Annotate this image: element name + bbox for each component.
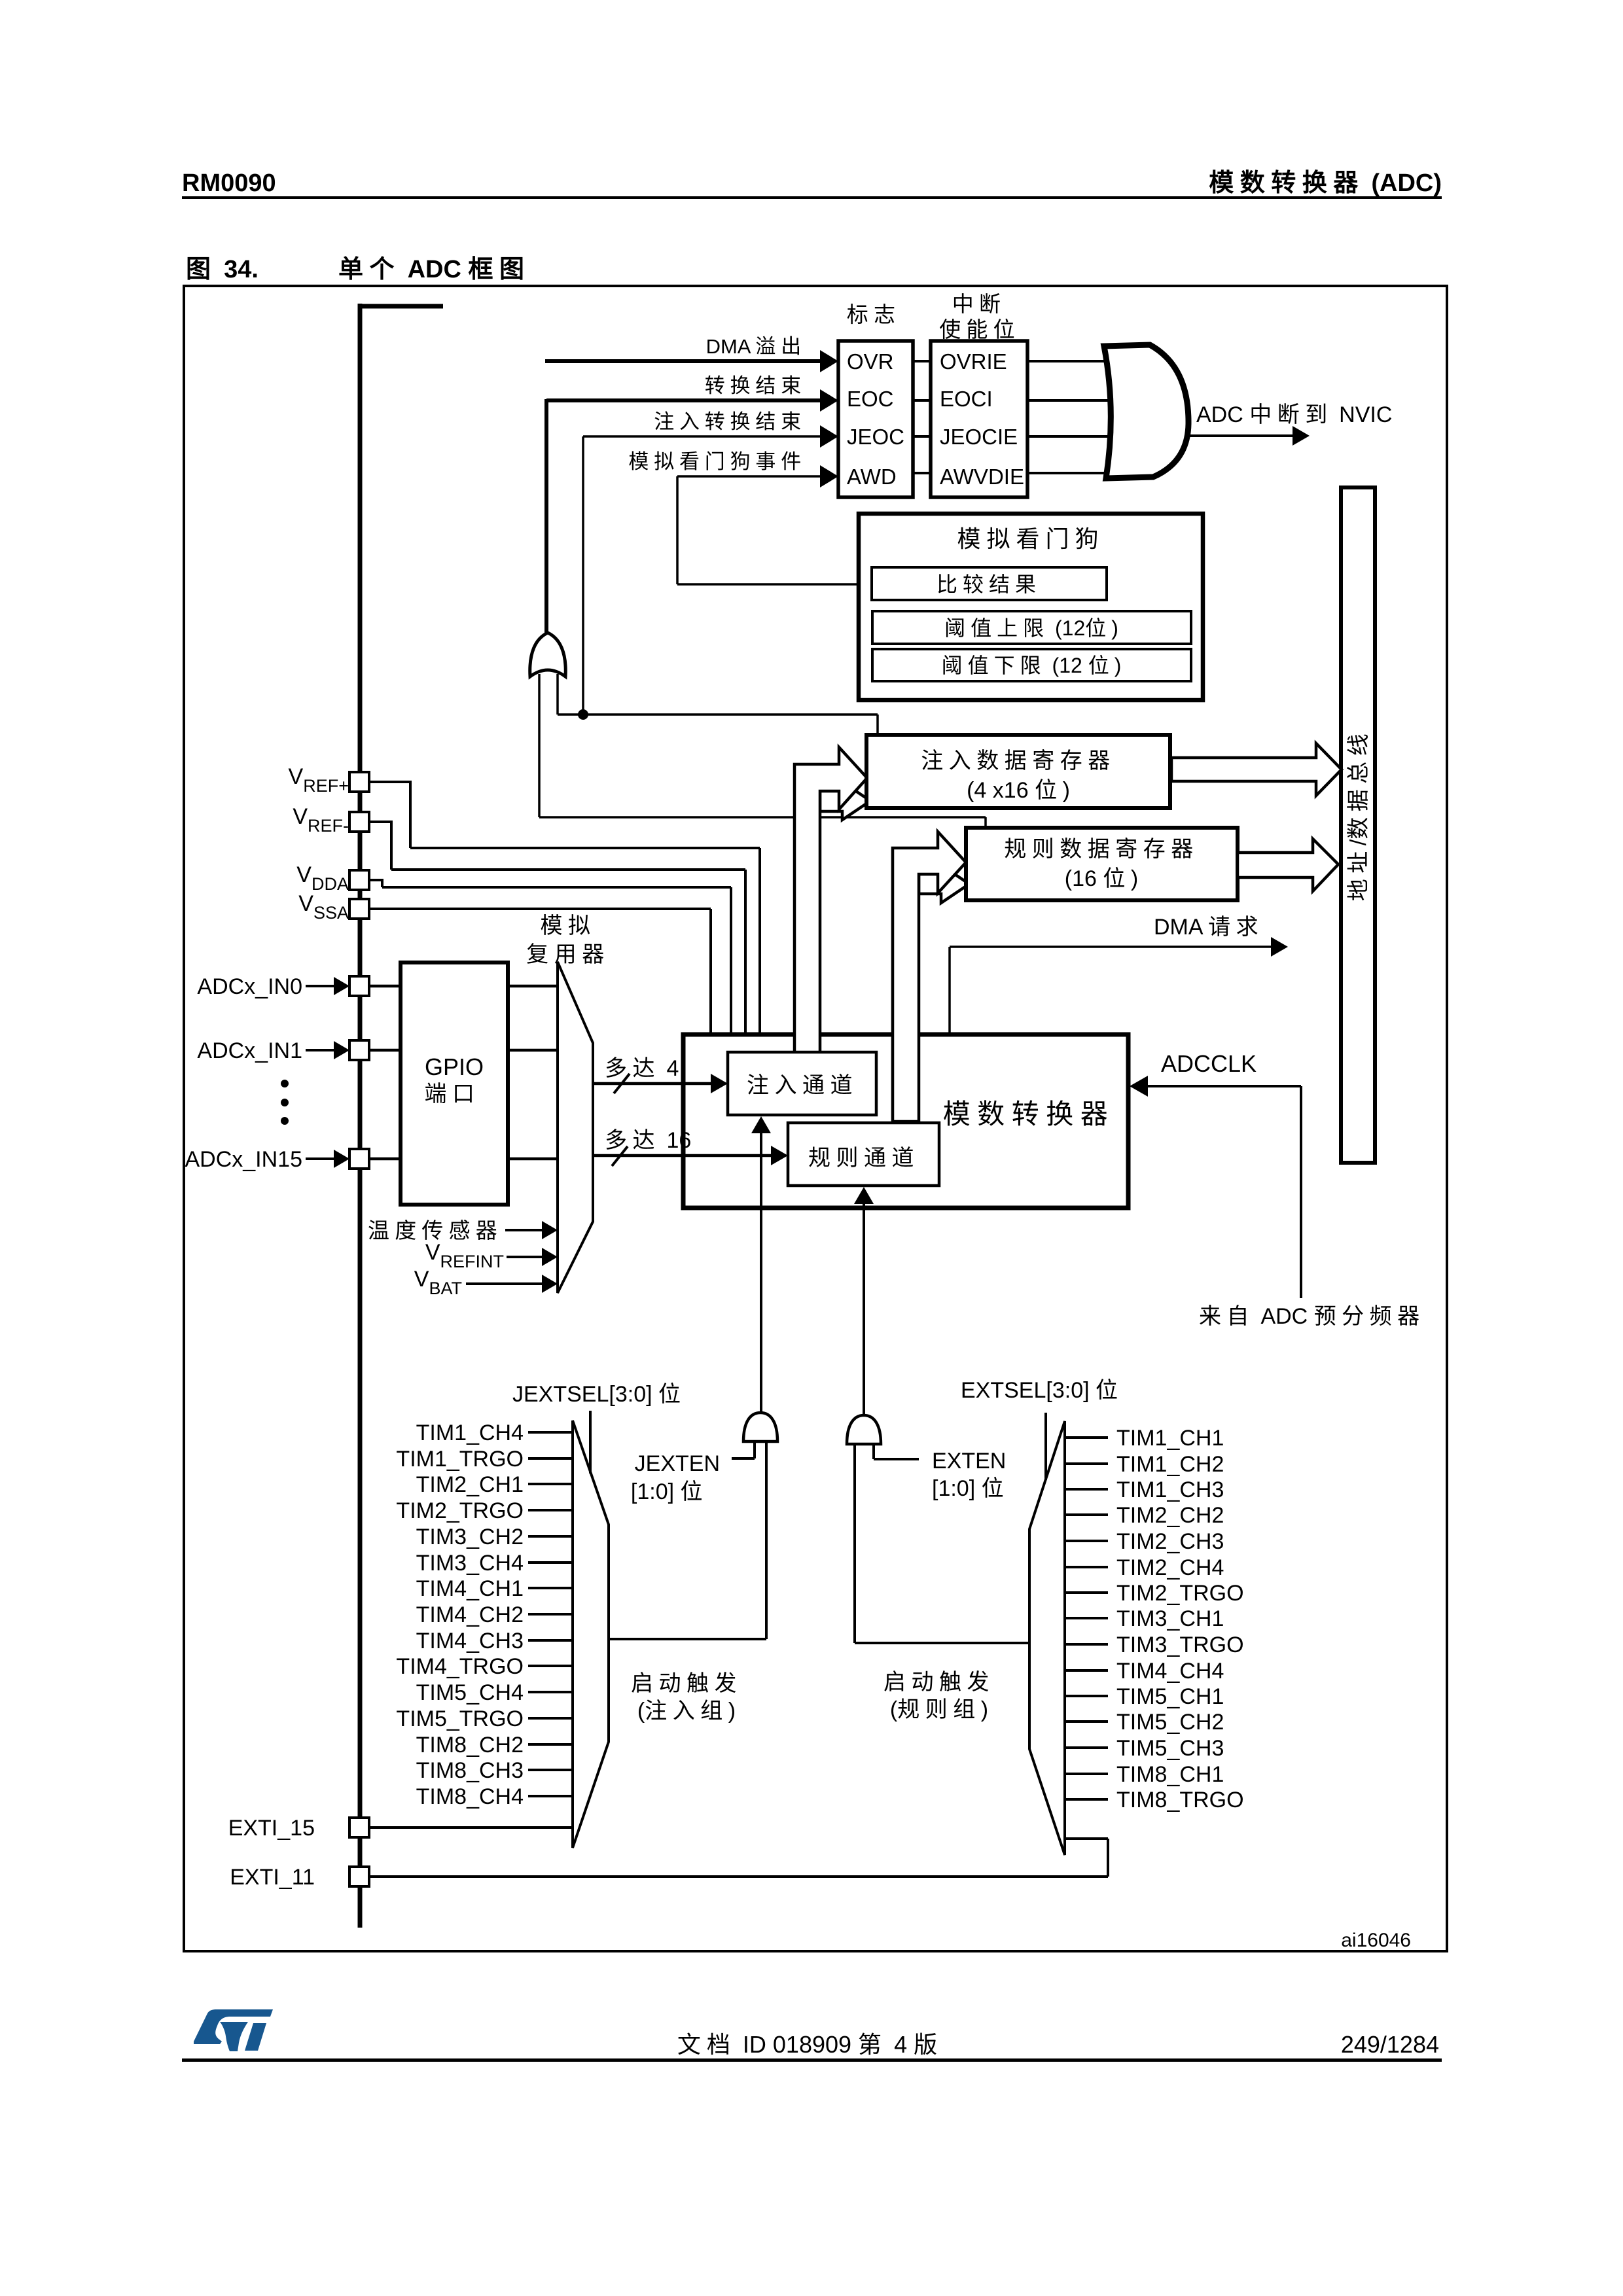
- wire ADC input y=1605: [369, 1049, 401, 1052]
- svg-text:ADCx_IN1: ADCx_IN1: [197, 1038, 302, 1063]
- arrowhead regular trigger: [854, 1187, 874, 1204]
- compare result box: [872, 567, 1107, 600]
- svg-text:TIM8_CH4: TIM8_CH4: [416, 1784, 524, 1809]
- wire ADCx_IN0 in: [306, 985, 334, 987]
- wire TIM4_CH2: [528, 1613, 573, 1616]
- EXTSEL mux trapezoid: [1029, 1421, 1065, 1855]
- svg-text:TIM1_CH2: TIM1_CH2: [1116, 1452, 1224, 1477]
- svg-text:TIM5_TRGO: TIM5_TRGO: [396, 1706, 524, 1731]
- wire TIM1_CH4: [528, 1431, 573, 1434]
- address data bus box: [1341, 487, 1375, 1163]
- svg-text:TIM5_CH3: TIM5_CH3: [1116, 1736, 1224, 1761]
- block arrow regular to bus: [1238, 839, 1338, 891]
- regular channels box: [788, 1123, 939, 1186]
- low threshold box: [872, 649, 1191, 681]
- svg-text:AWVDIE: AWVDIE: [940, 465, 1024, 489]
- wire TIM2_TRGO: [528, 1509, 573, 1511]
- wire ADCx_IN1 in: [306, 1049, 334, 1051]
- wire flag to enable y=552: [913, 360, 931, 362]
- svg-text:TIM5_CH4: TIM5_CH4: [416, 1680, 524, 1705]
- wire TIM2_CH3: [1065, 1540, 1108, 1542]
- wire JEXT mux out: [609, 1638, 766, 1640]
- wire TIM5_CH2: [1065, 1720, 1108, 1723]
- svg-text:TIM1_TRGO: TIM1_TRGO: [396, 1447, 524, 1472]
- wire ADC input y=1507: [369, 985, 401, 988]
- svg-text:TIM4_CH3: TIM4_CH3: [416, 1629, 524, 1653]
- svg-text:多达 16: 多达 16: [605, 1128, 691, 1153]
- wire TIM3_TRGO: [1065, 1643, 1108, 1646]
- injected channels box: [728, 1052, 876, 1115]
- svg-text:启动触发: 启动触发: [631, 1671, 742, 1696]
- svg-text:249/1284: 249/1284: [1341, 2031, 1439, 2058]
- wire VBAT: [466, 1282, 543, 1285]
- svg-text:VDDA: VDDA: [296, 862, 349, 894]
- svg-text:JEOCIE: JEOCIE: [940, 425, 1018, 449]
- wire regular trigger: [863, 1191, 865, 1414]
- wire TIM1_CH2: [1065, 1462, 1108, 1465]
- wire TIM3_CH1: [1065, 1617, 1108, 1619]
- svg-text:注入数据寄存器: 注入数据寄存器: [921, 749, 1116, 773]
- pin EXTI_15: [349, 1818, 369, 1837]
- wire enable to OR y=723: [1027, 472, 1119, 474]
- svg-text:OVR: OVR: [847, 349, 894, 374]
- svg-text:模数转换器: 模数转换器: [943, 1099, 1115, 1129]
- or-gate G4 EXT: [847, 1415, 881, 1444]
- wire TIM2_CH4: [1065, 1566, 1108, 1568]
- svg-text:中断: 中断: [952, 292, 1006, 316]
- svg-text:TIM2_CH3: TIM2_CH3: [1116, 1529, 1224, 1554]
- wire TIM2_CH2: [1065, 1513, 1108, 1516]
- wire JEXTSEL select: [589, 1411, 592, 1474]
- wire TIM4_CH4: [1065, 1669, 1108, 1672]
- svg-text:TIM8_CH2: TIM8_CH2: [416, 1733, 524, 1757]
- svg-text:转换结束: 转换结束: [705, 374, 806, 397]
- wire enable to OR y=667: [1027, 435, 1119, 438]
- svg-text:图 34.: 图 34.: [186, 256, 259, 283]
- ADC converter box 模数转换器: [683, 1034, 1128, 1208]
- wire EXTI_15 to mux: [369, 1826, 573, 1829]
- svg-text:JEOC: JEOC: [847, 425, 904, 449]
- wire ADCCLK: [1143, 1085, 1301, 1087]
- arrowhead AWD: [820, 465, 838, 487]
- block arrow injected data B: [820, 782, 870, 820]
- wire TIM8_CH3: [528, 1769, 573, 1771]
- svg-text:(注入组): (注入组): [637, 1699, 736, 1723]
- node JEOC junction: [578, 709, 588, 720]
- wire enable to OR y=552: [1027, 360, 1119, 362]
- svg-text:GPIO: GPIO: [425, 1053, 484, 1080]
- wire EXTEN: [874, 1458, 919, 1460]
- wire flag to enable y=612: [913, 399, 931, 402]
- GPIO ports box: [401, 963, 508, 1205]
- wire ADC input y=1771: [369, 1157, 401, 1161]
- svg-text:模拟看门狗: 模拟看门狗: [957, 525, 1104, 552]
- or-gate G2 (ADC interrupt): [1104, 345, 1188, 478]
- svg-text:(4 x16 位): (4 x16 位): [967, 778, 1070, 803]
- svg-text:ai16046: ai16046: [1341, 1930, 1411, 1951]
- svg-text:EXTSEL[3:0] 位: EXTSEL[3:0] 位: [961, 1378, 1124, 1403]
- svg-text:TIM3_CH2: TIM3_CH2: [416, 1525, 524, 1549]
- svg-text:TIM3_CH4: TIM3_CH4: [416, 1551, 524, 1576]
- wire ADCx_IN15 in: [306, 1157, 334, 1160]
- arrowhead JEOC: [820, 425, 838, 448]
- block arrow injected data A: [794, 747, 867, 1057]
- svg-text:TIM4_TRGO: TIM4_TRGO: [396, 1654, 524, 1679]
- wire TIM3_CH2: [528, 1535, 573, 1538]
- wire TIM5_CH3: [1065, 1746, 1108, 1749]
- svg-text:TIM3_TRGO: TIM3_TRGO: [1116, 1633, 1244, 1657]
- svg-text:EOC: EOC: [847, 387, 894, 411]
- analog mux trapezoid: [558, 962, 593, 1293]
- svg-text:ADC 中断到 NVIC: ADC 中断到 NVIC: [1196, 402, 1392, 427]
- arrowhead to NVIC: [1293, 426, 1310, 446]
- analog watchdog box: [859, 514, 1203, 700]
- arrowhead EOC: [820, 389, 838, 412]
- figure frame: [184, 286, 1447, 1951]
- svg-text:TIM8_TRGO: TIM8_TRGO: [1116, 1788, 1244, 1812]
- wire injected trigger: [760, 1120, 762, 1412]
- wire VREF+ net: [369, 781, 410, 783]
- svg-text:TIM4_CH2: TIM4_CH2: [416, 1602, 524, 1627]
- arrowhead ADCx_IN0: [334, 977, 349, 995]
- svg-text:注入转换结束: 注入转换结束: [654, 410, 806, 433]
- svg-text:VREFINT: VREFINT: [425, 1240, 504, 1271]
- svg-text:启动触发: 启动触发: [883, 1670, 995, 1695]
- svg-text:TIM5_CH2: TIM5_CH2: [1116, 1710, 1224, 1735]
- slash up-to-16: [612, 1146, 628, 1166]
- wire TIM2_TRGO: [1065, 1591, 1108, 1594]
- wire EXTI_11 to mux: [369, 1875, 1108, 1878]
- pin ADCx_IN1: [349, 1040, 369, 1060]
- svg-text:RM0090: RM0090: [182, 169, 276, 197]
- slash up-to-4: [614, 1074, 630, 1093]
- svg-text:AWD: AWD: [847, 465, 897, 489]
- wire TIM8_CH4: [528, 1795, 573, 1797]
- svg-text:比较结果: 比较结果: [936, 573, 1041, 596]
- svg-text:阈值上限 (12位): 阈值上限 (12位): [944, 616, 1118, 640]
- wire TIM4_CH3: [528, 1639, 573, 1642]
- wire VSSA net: [369, 908, 711, 910]
- svg-text:TIM8_CH3: TIM8_CH3: [416, 1758, 524, 1783]
- or-gate G1 (EOC combine): [530, 633, 566, 677]
- svg-text:TIM1_CH3: TIM1_CH3: [1116, 1477, 1224, 1502]
- wire flag to enable y=667: [913, 435, 931, 438]
- pin VREF+: [349, 772, 369, 792]
- svg-text:TIM5_CH1: TIM5_CH1: [1116, 1684, 1224, 1709]
- block arrow regular data B: [919, 865, 969, 903]
- ellipsis dots: [281, 1080, 289, 1087]
- svg-text:ADCx_IN0: ADCx_IN0: [197, 974, 302, 999]
- svg-text:多达 4: 多达 4: [605, 1056, 679, 1081]
- svg-text:地址/数据总线: 地址/数据总线: [1346, 728, 1371, 901]
- wire TIM8_CH1: [1065, 1773, 1108, 1775]
- svg-text:VBAT: VBAT: [414, 1267, 462, 1298]
- svg-text:ADCx_IN15: ADCx_IN15: [185, 1147, 302, 1172]
- arrowhead OVR: [820, 350, 838, 372]
- pin ADCx_IN0: [349, 976, 369, 996]
- arrowhead up-to-4: [711, 1074, 728, 1093]
- wire TIM8_TRGO: [1065, 1798, 1108, 1801]
- regular data register box: [966, 828, 1238, 900]
- svg-text:(规则组): (规则组): [890, 1697, 988, 1722]
- footer rule: [182, 2058, 1442, 2062]
- wire ADC interrupt out: [1186, 434, 1293, 437]
- pin EXTI_11: [349, 1867, 369, 1886]
- arrowhead ADCx_IN15: [334, 1150, 349, 1168]
- svg-text:OVRIE: OVRIE: [940, 349, 1007, 374]
- svg-text:EXTEN: EXTEN: [932, 1449, 1006, 1474]
- svg-text:[1:0] 位: [1:0] 位: [932, 1476, 1009, 1501]
- svg-text:模数转换器 (ADC): 模数转换器 (ADC): [1209, 169, 1442, 197]
- label 地址/数据总线: [1346, 728, 1371, 901]
- arrowhead VREFINT: [542, 1248, 558, 1266]
- svg-text:TIM2_CH1: TIM2_CH1: [416, 1472, 524, 1497]
- svg-text:TIM4_CH1: TIM4_CH1: [416, 1576, 524, 1601]
- svg-text:模拟看门狗事件: 模拟看门狗事件: [628, 450, 806, 473]
- svg-text:TIM2_TRGO: TIM2_TRGO: [396, 1498, 524, 1523]
- wire temp sensor: [505, 1229, 543, 1231]
- pin VDDA: [349, 870, 369, 890]
- svg-text:VREF+: VREF+: [289, 764, 349, 796]
- wire DMA request: [948, 947, 951, 1034]
- pin VSSA: [349, 899, 369, 919]
- ST logo: [194, 2009, 273, 2051]
- arrowhead ADCx_IN1: [334, 1041, 349, 1059]
- JEXTSEL mux trapezoid: [573, 1421, 609, 1848]
- wire TIM2_CH1: [528, 1483, 573, 1485]
- block arrow injected to bus: [1171, 743, 1342, 796]
- wire TIM8_CH2: [528, 1743, 573, 1746]
- wire EOC from OR gate: [546, 398, 822, 402]
- svg-text:TIM2_CH4: TIM2_CH4: [1116, 1555, 1224, 1580]
- arrowhead VBAT: [542, 1275, 558, 1293]
- svg-text:文档 ID 018909 第 4 版: 文档 ID 018909 第 4 版: [677, 2031, 943, 2058]
- wire TIM1_CH1: [1065, 1436, 1108, 1439]
- wire OVR (DMA overflow): [545, 359, 822, 363]
- wire VREF- net: [369, 821, 391, 823]
- high threshold box: [872, 611, 1191, 644]
- wire main left bus: [358, 304, 363, 1928]
- svg-text:注入通道: 注入通道: [747, 1073, 858, 1098]
- svg-text:TIM2_CH2: TIM2_CH2: [1116, 1503, 1224, 1528]
- pin ADCx_IN15: [349, 1149, 369, 1169]
- arrowhead ADCCLK: [1130, 1076, 1148, 1097]
- svg-text:TIM4_CH4: TIM4_CH4: [1116, 1659, 1224, 1684]
- wire TIM4_TRGO: [528, 1665, 573, 1667]
- svg-text:DMA 溢出: DMA 溢出: [706, 335, 806, 358]
- block arrow regular data A: [893, 832, 966, 1122]
- wire AWD event: [677, 475, 822, 478]
- interrupt enable box: [931, 341, 1027, 497]
- svg-text:模拟: 模拟: [541, 913, 596, 938]
- svg-text:端口: 端口: [425, 1082, 480, 1106]
- arrowhead up-to-16: [771, 1146, 788, 1165]
- svg-text:规则通道: 规则通道: [808, 1146, 919, 1171]
- svg-text:[1:0] 位: [1:0] 位: [631, 1479, 708, 1504]
- wire flag to enable y=723: [913, 472, 931, 474]
- wire JEXTEN: [732, 1457, 755, 1460]
- svg-text:阈值下限 (12 位): 阈值下限 (12 位): [942, 654, 1122, 677]
- svg-text:标志: 标志: [847, 302, 901, 327]
- wire VREFINT: [507, 1256, 543, 1258]
- wire TIM5_CH4: [528, 1691, 573, 1693]
- svg-text:来自 ADC 预分频器: 来自 ADC 预分频器: [1199, 1304, 1425, 1329]
- svg-text:JEXTEN: JEXTEN: [635, 1451, 720, 1476]
- wire VDDA net: [369, 879, 382, 881]
- svg-text:ADCCLK: ADCCLK: [1161, 1050, 1257, 1077]
- wire regular-EOC feed: [538, 674, 541, 817]
- header rule: [182, 196, 1442, 199]
- wire TIM5_TRGO: [528, 1717, 573, 1720]
- svg-text:EOCI: EOCI: [940, 387, 993, 411]
- svg-text:TIM1_CH1: TIM1_CH1: [1116, 1426, 1224, 1451]
- svg-text:JEXTSEL[3:0] 位: JEXTSEL[3:0] 位: [512, 1382, 687, 1407]
- wire TIM1_CH3: [1065, 1488, 1108, 1491]
- svg-text:单个 ADC 框图: 单个 ADC 框图: [338, 256, 530, 283]
- svg-text:TIM3_CH1: TIM3_CH1: [1116, 1606, 1224, 1631]
- wire injected-EOC feed: [556, 674, 559, 715]
- svg-text:规则数据寄存器: 规则数据寄存器: [1004, 837, 1199, 862]
- svg-text:TIM8_CH1: TIM8_CH1: [1116, 1762, 1224, 1787]
- svg-text:EXTI_11: EXTI_11: [230, 1865, 315, 1890]
- svg-text:复用器: 复用器: [526, 942, 610, 967]
- wire TIM5_CH1: [1065, 1695, 1108, 1697]
- svg-text:VSSA: VSSA: [298, 891, 349, 923]
- arrowhead temp sensor: [542, 1221, 558, 1239]
- svg-text:温度传感器: 温度传感器: [368, 1218, 503, 1243]
- wire up-to-16 bus: [593, 1154, 774, 1157]
- wire JEOC: [583, 435, 822, 438]
- or-gate G3 JEXT: [743, 1413, 777, 1441]
- wire TIM4_CH1: [528, 1587, 573, 1589]
- svg-text:使能位: 使能位: [939, 317, 1020, 342]
- svg-text:EXTI_15: EXTI_15: [228, 1816, 315, 1841]
- flag register box: [838, 341, 913, 497]
- wire EXTSEL select: [1044, 1413, 1047, 1480]
- arrowhead injected trigger: [751, 1116, 771, 1133]
- pin VREF-: [349, 812, 369, 832]
- svg-text:DMA 请求: DMA 请求: [1154, 915, 1264, 940]
- svg-text:TIM1_CH4: TIM1_CH4: [416, 1421, 524, 1445]
- svg-text:(16 位): (16 位): [1065, 866, 1138, 891]
- wire top stub: [360, 304, 443, 309]
- wire EXT mux out: [855, 1642, 1029, 1644]
- injected data register box: [866, 735, 1170, 808]
- svg-text:TIM2_TRGO: TIM2_TRGO: [1116, 1581, 1244, 1606]
- wire TIM3_CH4: [528, 1561, 573, 1564]
- svg-text:VREF-: VREF-: [293, 804, 349, 836]
- arrowhead DMA request: [1271, 937, 1288, 957]
- wire TIM1_TRGO: [528, 1457, 573, 1460]
- wire up-to-4 bus: [593, 1082, 713, 1086]
- wire enable to OR y=612: [1027, 399, 1119, 402]
